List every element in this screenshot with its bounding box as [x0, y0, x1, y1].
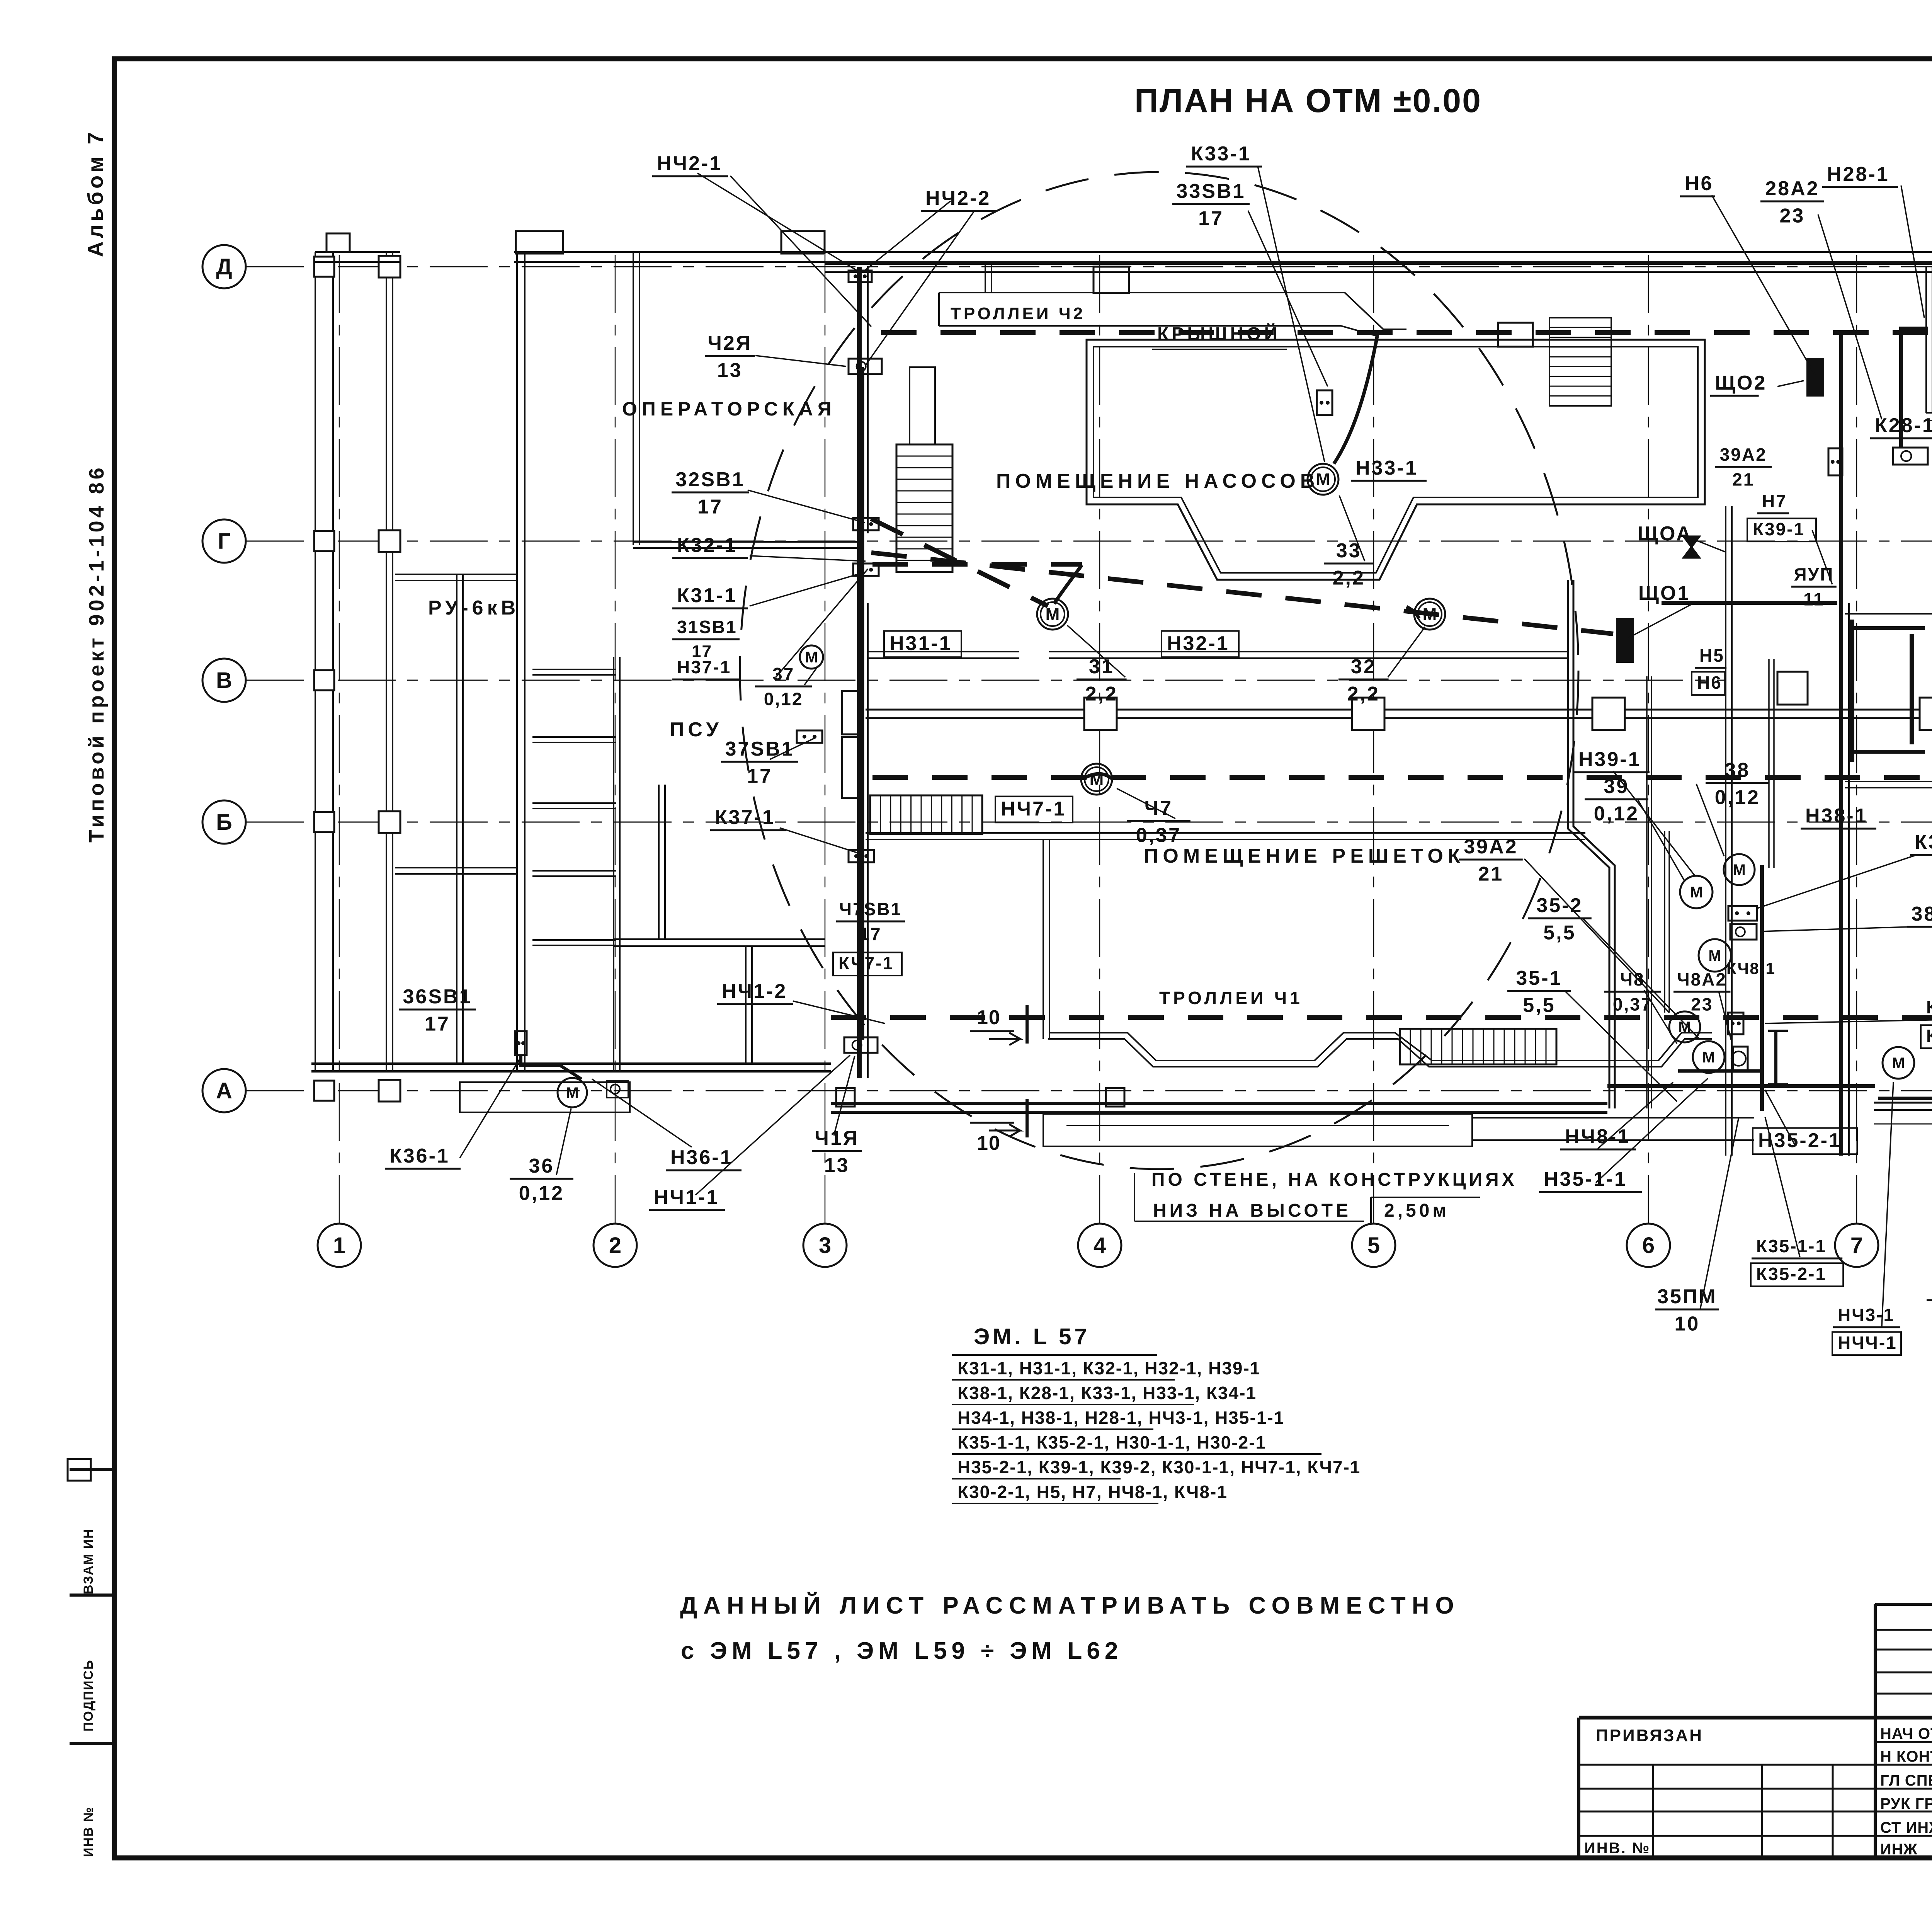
svg-text:Ч7: Ч7	[1145, 797, 1173, 819]
svg-text:4: 4	[1094, 1233, 1106, 1258]
svg-text:5,5: 5,5	[1543, 922, 1576, 944]
staircase lower	[1400, 1029, 1556, 1064]
svg-text:Г: Г	[218, 529, 231, 554]
partition РУ x1182	[456, 574, 457, 1064]
vent stub top	[516, 231, 563, 254]
box 35ПМ device	[1733, 1047, 1748, 1071]
column pad x1008	[379, 256, 400, 278]
svg-text:35-1: 35-1	[1516, 967, 1562, 989]
svg-text:Н39-1: Н39-1	[1578, 748, 1641, 771]
leader lines	[730, 176, 871, 327]
wall К28 room bottom	[1926, 412, 1932, 414]
cable hook M47	[1085, 774, 1111, 778]
svg-text:НЧ2-2: НЧ2-2	[925, 187, 991, 209]
axis line 7	[1856, 255, 1857, 1224]
svg-text:НЧЧ-1: НЧЧ-1	[1838, 1333, 1897, 1353]
svg-text:К31-1, Н31-1, К32-1, Н32-1, Н3: К31-1, Н31-1, К32-1, Н32-1, Н39-1	[957, 1358, 1260, 1378]
wall x1345	[516, 252, 518, 1071]
svg-text:17: 17	[1198, 208, 1224, 230]
svg-text:ПРИВЯЗАН: ПРИВЯЗАН	[1596, 1726, 1703, 1745]
svg-text:ПОМЕЩЕНИЕ НАСОСОВ: ПОМЕЩЕНИЕ НАСОСОВ	[996, 470, 1319, 492]
axis line Б	[246, 822, 1932, 823]
svg-text:НЧ2-1: НЧ2-1	[657, 152, 722, 175]
svg-text:13: 13	[824, 1154, 850, 1177]
column pad colonnade	[314, 531, 334, 551]
svg-text:2: 2	[609, 1233, 621, 1258]
svg-text:31SВ1: 31SВ1	[677, 617, 737, 637]
svg-text:Альбом 7: Альбом 7	[83, 129, 107, 257]
grid bubble Б	[202, 800, 246, 844]
svg-text:0,12: 0,12	[1594, 803, 1639, 825]
axis line 1	[339, 255, 340, 1224]
svg-text:17: 17	[747, 765, 772, 788]
button 39А2	[1828, 448, 1842, 475]
vent shaft hatch	[1549, 318, 1611, 406]
grid bubble 3	[803, 1224, 847, 1267]
svg-text:ИНЖ: ИНЖ	[1880, 1841, 1918, 1858]
svg-text:Н7: Н7	[1762, 491, 1787, 511]
svg-text:17: 17	[425, 1013, 450, 1035]
svg-text:33SВ1: 33SВ1	[1177, 180, 1246, 203]
svg-text:К39-1: К39-1	[1753, 519, 1805, 539]
svg-text:32: 32	[1351, 655, 1376, 678]
svg-text:Н28-1: Н28-1	[1827, 163, 1889, 186]
svg-text:А: А	[216, 1078, 232, 1103]
svg-text:1: 1	[333, 1233, 345, 1258]
box К48 device	[1730, 924, 1757, 940]
wall ПСУ x1705	[658, 785, 660, 939]
dock left block	[460, 1082, 630, 1112]
svg-text:К30-2-1, Н5, Н7, НЧ8-1, КЧ8-1: К30-2-1, Н5, Н7, НЧ8-1, КЧ8-1	[957, 1482, 1228, 1502]
svg-text:0,12: 0,12	[1715, 787, 1760, 809]
box К28-1	[1893, 448, 1928, 465]
motor 37 (М)	[800, 645, 823, 669]
svg-text:РУК ГР.: РУК ГР.	[1880, 1795, 1932, 1812]
monorail column	[1084, 698, 1117, 730]
svg-text:Ч7SВ1: Ч7SВ1	[839, 899, 902, 919]
svg-text:ПСУ: ПСУ	[670, 718, 723, 741]
axis line 4	[1099, 255, 1100, 1224]
svg-text:39А2: 39А2	[1464, 836, 1518, 858]
svg-text:2,2: 2,2	[1333, 567, 1365, 589]
cable bottom cluster h	[1607, 1084, 1875, 1088]
wall main bottom heavy	[831, 1102, 1607, 1105]
svg-text:Б: Б	[216, 810, 232, 835]
svg-text:36SВ1: 36SВ1	[403, 986, 472, 1008]
grid bubble 5	[1352, 1224, 1395, 1267]
wall stub x2550	[985, 263, 986, 293]
svg-text:Н5: Н5	[1699, 645, 1725, 666]
trolley1 channel	[1048, 1039, 1712, 1067]
wall main left heavy	[857, 267, 862, 1078]
svg-text:НЧ1-1: НЧ1-1	[654, 1186, 719, 1209]
I-beam pier room right	[1850, 620, 1854, 762]
column pad colonnade	[314, 812, 334, 832]
wall y1560 heavy	[1662, 601, 1837, 605]
svg-text:35ПМ: 35ПМ	[1657, 1285, 1717, 1308]
grid bubble 4	[1078, 1224, 1121, 1267]
svg-text:21: 21	[1732, 469, 1754, 489]
staircase upper	[910, 367, 935, 444]
svg-text:КЧ8-1: КЧ8-1	[1726, 959, 1776, 977]
svg-text:Типовой проект 902-1-104 86: Типовой проект 902-1-104 86	[85, 465, 108, 843]
svg-text:Н34-1, Н38-1, Н28-1, НЧ3-1, Н3: Н34-1, Н38-1, Н28-1, НЧ3-1, Н35-1-1	[957, 1408, 1284, 1428]
wall top operator room	[514, 251, 825, 253]
axis line 2	[615, 255, 616, 1224]
svg-text:НЧ1-2: НЧ1-2	[722, 980, 787, 1003]
cable 36 run	[521, 1055, 582, 1079]
motor 35-1 (М)	[1693, 1041, 1725, 1073]
svg-text:М: М	[1702, 1049, 1715, 1066]
axis line 6	[1648, 255, 1649, 1224]
pylon top wall	[1094, 267, 1129, 293]
margin text Альбом 7	[83, 129, 107, 257]
dashed circle of underground shell	[740, 172, 1578, 1169]
svg-text:ОПЕРАТОРСКАЯ: ОПЕРАТОРСКАЯ	[622, 398, 836, 420]
motor Ч8 (М)	[1883, 1047, 1914, 1079]
svg-text:В: В	[216, 668, 232, 693]
svg-text:К38-1, К28-1, К33-1, Н33-1, К3: К38-1, К28-1, К33-1, Н33-1, К34-1	[957, 1383, 1257, 1403]
fin wall	[532, 870, 616, 872]
grid bubble 1	[318, 1224, 361, 1267]
grate room left inner wall	[1043, 839, 1044, 1039]
cable trolley2 dashed	[881, 330, 1932, 335]
axis line 3	[825, 255, 826, 1224]
title block grid	[1579, 1716, 1932, 1720]
svg-text:К31-1: К31-1	[677, 584, 737, 607]
svg-text:К37-1: К37-1	[715, 806, 775, 829]
box ЯУП	[1777, 672, 1808, 705]
svg-text:РУ-6кВ: РУ-6кВ	[428, 597, 519, 619]
svg-text:Ч8А2: Ч8А2	[1677, 969, 1727, 989]
wall x1008	[386, 252, 387, 1071]
wall y1588	[1845, 613, 1932, 615]
svg-text:Н6: Н6	[1685, 172, 1713, 195]
shaft wall x4262	[1646, 676, 1648, 1108]
svg-text:11: 11	[1803, 589, 1825, 609]
column pad colonnade	[314, 257, 334, 277]
fin wall	[532, 669, 616, 670]
wall top left block	[315, 251, 400, 253]
svg-text:М: М	[1423, 605, 1437, 624]
svg-text:Ч1Я: Ч1Я	[815, 1127, 859, 1149]
monorail end cap left	[842, 691, 859, 734]
stub room bottom	[745, 947, 747, 1064]
button 32SB1	[853, 518, 879, 530]
svg-text:М: М	[1690, 884, 1702, 901]
axis line Д	[246, 266, 1932, 267]
svg-text:21: 21	[1478, 863, 1503, 885]
svg-text:М: М	[1733, 861, 1745, 878]
svg-text:ЩОА: ЩОА	[1638, 523, 1692, 545]
box 38SB2 device	[1728, 906, 1757, 921]
wall x4470 vert	[1725, 506, 1726, 1156]
dock below bottom wall	[1043, 1114, 1472, 1146]
svg-text:Н31-1: Н31-1	[889, 632, 952, 655]
staircase mid	[870, 795, 982, 834]
grid bubble 7	[1835, 1224, 1878, 1267]
panel ЩО1 (filled)	[1617, 619, 1633, 662]
svg-text:М: М	[566, 1084, 578, 1102]
svg-text:10: 10	[1674, 1313, 1700, 1335]
svg-text:39А2: 39А2	[1720, 444, 1767, 465]
cable hook M31	[1054, 565, 1082, 604]
pier x4596	[1774, 1031, 1777, 1084]
svg-text:ИНВ №: ИНВ №	[81, 1806, 96, 1857]
axis line Г	[246, 541, 1932, 542]
svg-text:К35-1-1, К35-2-1, Н30-1-1, Н30: К35-1-1, К35-2-1, Н30-1-1, Н30-2-1	[957, 1432, 1266, 1452]
svg-text:КРЫШНОЙ: КРЫШНОЙ	[1157, 323, 1281, 344]
svg-text:М: М	[1708, 947, 1721, 964]
motor 38 (М)	[1724, 854, 1755, 885]
grid bubble Г	[202, 519, 246, 563]
motor 31 (М)	[1037, 599, 1068, 630]
svg-text:31: 31	[1089, 655, 1114, 678]
svg-text:Д: Д	[216, 254, 232, 279]
svg-text:К39-1: К39-1	[1926, 997, 1932, 1017]
svg-text:Н38-1: Н38-1	[1805, 805, 1868, 827]
svg-text:ГЛ СПЕЦ: ГЛ СПЕЦ	[1880, 1772, 1932, 1789]
column pad x1008	[379, 1080, 400, 1102]
cable upper diagonal dashed	[871, 519, 1048, 606]
svg-text:Н37-1: Н37-1	[677, 657, 731, 677]
margin stamp boxes	[70, 1468, 114, 1471]
wall x1645 operator	[633, 252, 634, 545]
cable H47 dashed	[872, 775, 1932, 780]
wall left block bottom	[311, 1062, 831, 1065]
wall left colonnade	[315, 252, 316, 1071]
svg-text:К38-1: К38-1	[1915, 831, 1932, 853]
wall y1410 operator	[633, 541, 859, 543]
button К31	[853, 564, 879, 576]
axis line А	[246, 1090, 1932, 1091]
leader ЩО2	[1777, 381, 1804, 386]
svg-text:М: М	[1090, 770, 1104, 789]
svg-text:ЭМ. L 57: ЭМ. L 57	[974, 1324, 1090, 1349]
button 33SB1	[1317, 390, 1332, 415]
zigzag wall grate room	[1568, 580, 1609, 1108]
svg-text:23: 23	[1779, 205, 1805, 227]
wall x1590	[613, 657, 614, 1071]
cable hook M32	[1406, 607, 1419, 618]
svg-text:Н33-1: Н33-1	[1355, 457, 1418, 479]
svg-text:К39-2: К39-2	[1926, 1026, 1932, 1046]
svg-text:Н36-1: Н36-1	[670, 1146, 733, 1169]
svg-text:2,50м: 2,50м	[1384, 1200, 1449, 1221]
switch ЩОА (bowtie)	[1684, 536, 1699, 558]
svg-text:5,5: 5,5	[1523, 994, 1555, 1017]
cable H32 diagonal dashed	[871, 553, 1613, 634]
cable H31 dashed	[872, 562, 1082, 567]
pump pit outline	[1087, 340, 1705, 580]
svg-text:СТ ИНЖ: СТ ИНЖ	[1880, 1819, 1932, 1836]
svg-text:Н35-1-1: Н35-1-1	[1544, 1168, 1627, 1190]
motor 48 (М)	[1669, 1011, 1700, 1042]
margin text Типовой проект 902-1-104 86	[85, 465, 108, 843]
cable bottom right	[1878, 1097, 1932, 1100]
svg-text:ПЛАН НА ОТМ ±0.00: ПЛАН НА ОТМ ±0.00	[1134, 82, 1482, 119]
svg-text:ТРОЛЛЕИ Ч2: ТРОЛЛЕИ Ч2	[951, 304, 1085, 323]
cable hook M33	[1334, 334, 1378, 464]
svg-text:36: 36	[529, 1155, 554, 1177]
svg-text:10: 10	[977, 1132, 1001, 1154]
pad below bottom wall	[836, 1088, 855, 1107]
svg-text:ПОМЕЩЕНИЕ РЕШЕТОК: ПОМЕЩЕНИЕ РЕШЕТОК	[1144, 845, 1465, 867]
svg-text:Н32-1: Н32-1	[1167, 632, 1230, 655]
svg-text:М: М	[1892, 1055, 1905, 1072]
svg-text:38: 38	[1725, 759, 1750, 781]
grid bubble А	[202, 1069, 246, 1112]
svg-text:М: М	[1678, 1019, 1691, 1036]
fin wall	[532, 939, 616, 941]
button Ч7SB1	[849, 850, 874, 862]
svg-text:НЧ7-1: НЧ7-1	[1001, 798, 1066, 820]
svg-text:2,2: 2,2	[1347, 683, 1380, 705]
svg-text:38SВ2: 38SВ2	[1912, 903, 1932, 925]
svg-text:ЩО2: ЩО2	[1715, 372, 1767, 394]
svg-text:К32-1: К32-1	[677, 534, 737, 557]
button 37SB1	[797, 730, 822, 743]
panel ЩО2 (filled)	[1807, 359, 1823, 396]
rib РУ y2245	[395, 867, 517, 868]
svg-text:Н КОНТР.: Н КОНТР.	[1880, 1748, 1932, 1765]
svg-text:К36-1: К36-1	[389, 1145, 450, 1167]
svg-text:М: М	[1046, 605, 1060, 624]
shaft wall x4308	[1664, 831, 1665, 1013]
svg-text:0,37: 0,37	[1613, 994, 1652, 1014]
svg-text:КЧ7-1: КЧ7-1	[838, 953, 894, 973]
wall x4765 heavy	[1839, 332, 1843, 1156]
svg-text:5: 5	[1367, 1233, 1380, 1258]
svg-text:ПОДПИСЬ: ПОДПИСЬ	[81, 1659, 96, 1731]
cable bottom cluster v	[1760, 865, 1764, 1111]
svg-text:Ч2Я: Ч2Я	[707, 332, 752, 354]
grid bubble В	[202, 659, 246, 702]
monorail column	[1920, 698, 1932, 730]
svg-text:ВЗАМ ИН: ВЗАМ ИН	[81, 1528, 96, 1594]
svg-text:К35-1-1: К35-1-1	[1756, 1236, 1827, 1256]
svg-text:37SВ1: 37SВ1	[725, 738, 794, 760]
wall main top outer	[561, 251, 1932, 253]
box Ч1Я	[844, 1037, 878, 1053]
svg-text:ТРОЛЛЕИ Ч1: ТРОЛЛЕИ Ч1	[1159, 988, 1303, 1008]
svg-text:37: 37	[772, 664, 794, 684]
cable left trunk	[861, 367, 864, 1040]
column pad colonnade	[314, 670, 334, 690]
svg-text:ПО СТЕНЕ, НА КОНСТРУКЦИЯХ: ПО СТЕНЕ, НА КОНСТРУКЦИЯХ	[1151, 1170, 1517, 1190]
partition y2022	[1845, 781, 1932, 782]
wall x4580 vert	[1768, 659, 1770, 868]
motor 39 (М)	[1680, 876, 1713, 908]
column pad x1008	[379, 530, 400, 552]
svg-text:6: 6	[1642, 1233, 1655, 1258]
svg-text:32SВ1: 32SВ1	[676, 468, 745, 491]
motor 35-2 (М)	[1699, 939, 1731, 972]
svg-text:М: М	[805, 649, 818, 666]
svg-text:7: 7	[1850, 1233, 1863, 1258]
svg-text:0,12: 0,12	[519, 1182, 564, 1205]
cable cluster link	[1678, 1069, 1762, 1073]
svg-text:К28-1: К28-1	[1875, 414, 1932, 437]
svg-text:28А2: 28А2	[1765, 177, 1819, 200]
monorail column	[1352, 698, 1384, 730]
wall y1686	[868, 651, 1019, 652]
pylon pit edge 1	[1498, 323, 1533, 347]
motor 36 (М)	[558, 1078, 587, 1107]
rib РУ y1486	[395, 574, 517, 575]
svg-text:Н6: Н6	[1697, 672, 1722, 693]
motor Ч7 (М)	[1081, 764, 1112, 795]
box Ч2Я	[849, 359, 882, 374]
monorail column	[1592, 698, 1625, 730]
column pad colonnade	[314, 1081, 334, 1101]
cable trolley1 dashed	[831, 1015, 1932, 1020]
svg-text:ДАННЫЙ ЛИСТ РАССМАТРИВАТЬ С: ДАННЫЙ ЛИСТ РАССМАТРИВАТЬ СОВМЕСТНО	[680, 1592, 1460, 1619]
button 48А2 device	[1728, 1013, 1743, 1034]
svg-text:23: 23	[1691, 994, 1713, 1014]
svg-text:К33-1: К33-1	[1191, 143, 1251, 165]
svg-text:НИЗ НА ВЫСОТЕ: НИЗ НА ВЫСОТЕ	[1153, 1200, 1351, 1221]
svg-text:НЧ3-1: НЧ3-1	[1838, 1305, 1895, 1325]
fin wall	[532, 802, 616, 804]
axis line В	[246, 680, 1726, 681]
svg-text:13: 13	[717, 359, 743, 382]
button 36SB1	[515, 1031, 527, 1055]
svg-text:10: 10	[977, 1006, 1001, 1029]
motor 33 (М)	[1308, 464, 1338, 495]
button НЧ2 wall	[849, 271, 872, 282]
svg-text:3: 3	[819, 1233, 831, 1258]
device Н36	[607, 1081, 628, 1098]
svg-text:0,12: 0,12	[764, 689, 803, 709]
svg-text:17: 17	[859, 924, 881, 944]
svg-text:с ЭМ L57 , ЭМ L59 ÷ ЭМ L62: с ЭМ L57 , ЭМ L59 ÷ ЭМ L62	[681, 1638, 1122, 1664]
wall К28 room left	[1925, 267, 1927, 413]
svg-text:0,37: 0,37	[1136, 824, 1181, 847]
svg-text:К35-2-1: К35-2-1	[1756, 1264, 1827, 1284]
axis line 5	[1373, 255, 1374, 1224]
svg-text:2,2: 2,2	[1085, 683, 1118, 705]
wall y2430 left block	[614, 938, 825, 940]
motor 32 (М)	[1414, 599, 1445, 630]
svg-text:НАЧ ОТД: НАЧ ОТД	[1880, 1725, 1932, 1742]
column pad x1008	[379, 811, 400, 833]
monorail beam	[866, 709, 1932, 711]
svg-text:Н35-2-1, К39-1, К39-2, К30-1-1: Н35-2-1, К39-1, К39-2, К30-1-1, НЧ7-1, К…	[957, 1457, 1361, 1477]
grid bubble 2	[594, 1224, 637, 1267]
svg-text:17: 17	[697, 496, 723, 518]
trolley2 channel	[939, 293, 1406, 329]
grate room top wall	[866, 832, 1585, 834]
svg-text:ИНВ. №: ИНВ. №	[1584, 1840, 1650, 1857]
fin wall	[532, 736, 616, 738]
grid bubble 6	[1627, 1224, 1670, 1267]
svg-text:ЩО1: ЩО1	[1638, 582, 1690, 604]
grid bubble Д	[202, 245, 246, 288]
cable K28 run	[1901, 329, 1928, 448]
